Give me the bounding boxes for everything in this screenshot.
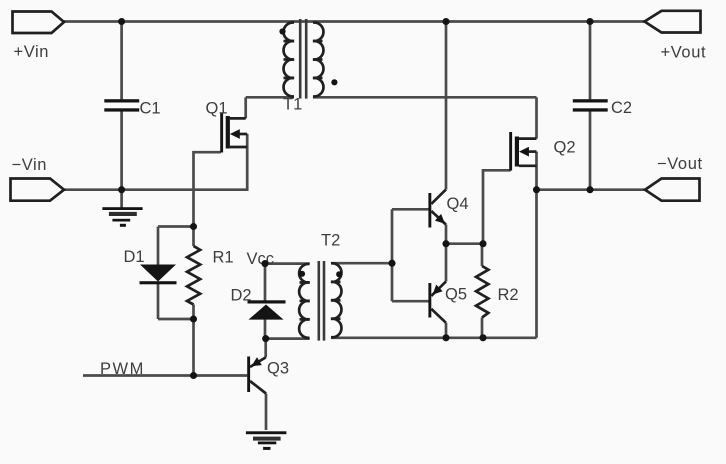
svg-text:+Vout: +Vout bbox=[661, 44, 707, 62]
wire node to T2 primary bottom bbox=[265, 337, 310, 340]
svg-text:PWM: PWM bbox=[100, 360, 145, 378]
junction Vcc node bbox=[261, 260, 268, 267]
wire D1 bottom link bbox=[158, 318, 194, 321]
transformer T2 bbox=[299, 232, 342, 341]
wire D2 cathode lead bbox=[264, 264, 267, 301]
svg-text:−Vout: −Vout bbox=[657, 155, 703, 173]
wire -Vout rail bbox=[537, 188, 646, 191]
svg-text:−Vin: −Vin bbox=[12, 156, 48, 174]
wire T1 secondary bottom to Q2 drain bbox=[313, 96, 537, 99]
transistor Q4 bbox=[428, 189, 468, 227]
wire ground stem left bbox=[120, 190, 123, 208]
svg-text:C1: C1 bbox=[140, 100, 161, 118]
wire Q3 emitter vertical bbox=[265, 394, 268, 431]
capacitor C2 bbox=[573, 99, 632, 117]
wire Q4/Q5 base vertical bbox=[391, 209, 394, 301]
svg-text:Q3: Q3 bbox=[267, 360, 289, 378]
wire C2 bottom lead bbox=[589, 111, 592, 189]
wire T2 secondary top to base node bbox=[331, 262, 392, 265]
svg-text:Q2: Q2 bbox=[554, 139, 576, 157]
wire R1 bottom lead bbox=[192, 305, 195, 320]
svg-text:R2: R2 bbox=[498, 286, 519, 304]
wire Q2 drain vertical bbox=[535, 97, 538, 138]
ground under Q3 bbox=[246, 431, 287, 450]
wire bottom rail T2 secondary to right loop bbox=[331, 336, 537, 339]
svg-text:+Vin: +Vin bbox=[14, 43, 50, 61]
junction R2 top Q2 gate node bbox=[479, 240, 486, 247]
resistor R2 bbox=[476, 266, 488, 318]
wire R2 top lead bbox=[481, 244, 484, 266]
wire Q1 gate link bbox=[194, 152, 221, 226]
junction gate node top bbox=[190, 223, 197, 230]
svg-text:Q1: Q1 bbox=[206, 100, 228, 118]
wire Q5 base bbox=[392, 300, 429, 303]
wire Q1 drain vertical bbox=[244, 97, 247, 118]
svg-text:Vcc: Vcc bbox=[247, 250, 275, 268]
junction -Vout rail Q2 source bbox=[533, 186, 540, 193]
wire right loop vertical bbox=[535, 190, 538, 338]
wire R1 node down to PWM node bbox=[192, 319, 195, 376]
wire R2 bottom lead bbox=[481, 318, 484, 338]
junction top rail C2 bbox=[586, 18, 593, 25]
svg-text:C2: C2 bbox=[611, 99, 632, 117]
wire Q2 source vertical bbox=[535, 152, 538, 190]
svg-text:T1: T1 bbox=[283, 96, 302, 114]
junction -Vin rail C1 bbox=[118, 186, 125, 193]
svg-text:Q4: Q4 bbox=[447, 195, 469, 213]
wire Q4 emitter to node to Q5 emitter bbox=[445, 225, 448, 282]
diode D1 bbox=[124, 248, 177, 284]
junction -Vout rail C2 bbox=[586, 186, 593, 193]
svg-text:D1: D1 bbox=[124, 248, 145, 266]
wire Vcc node to T2 primary top bbox=[265, 262, 310, 265]
junction top rail C1 bbox=[118, 18, 125, 25]
wire -Vin rail bbox=[64, 188, 249, 191]
wire emitter node to R2 top bbox=[446, 242, 483, 245]
diode D2 bbox=[231, 287, 286, 320]
wire Q4 collector vertical bbox=[445, 22, 448, 190]
wire Q1 source vertical bbox=[246, 134, 249, 190]
wire D1 top link bbox=[158, 225, 194, 228]
wire C1 bottom lead bbox=[120, 111, 123, 189]
wire D2 anode lead bbox=[264, 320, 267, 339]
wire Q3 collector vertical bbox=[264, 339, 267, 358]
junction bottom rail Q5 collector bbox=[442, 334, 449, 341]
wire Q5 collector vertical bbox=[445, 323, 448, 338]
transformer T1 bbox=[279, 19, 337, 114]
junction T2 secondary base node bbox=[388, 260, 395, 267]
wire top rail +Vin to +Vout bbox=[64, 20, 644, 23]
wire Q2 gate link bbox=[483, 170, 511, 243]
wire R1 top lead bbox=[192, 227, 195, 247]
wire Q4 base bbox=[392, 208, 429, 211]
junction Q4 Q5 emitter node bbox=[442, 240, 449, 247]
wire C1 top lead bbox=[120, 22, 123, 100]
port -Vout bbox=[645, 155, 703, 201]
port +Vout bbox=[645, 11, 707, 62]
junction D2 Q3 collector node bbox=[262, 335, 269, 342]
svg-text:T2: T2 bbox=[321, 232, 340, 250]
junction PWM node bbox=[190, 372, 197, 379]
junction bottom rail R2 bbox=[479, 334, 486, 341]
mosfet Q1 bbox=[206, 100, 248, 153]
wire C2 top lead bbox=[589, 22, 592, 100]
port +Vin bbox=[13, 12, 65, 62]
svg-text:R1: R1 bbox=[213, 249, 234, 267]
junction top rail Q4 collector bbox=[442, 18, 449, 25]
port -Vin bbox=[11, 156, 65, 201]
wire PWM input bbox=[83, 374, 247, 377]
ground under C1 bbox=[102, 207, 142, 227]
transistor Q3 bbox=[247, 357, 289, 394]
svg-text:Q5: Q5 bbox=[445, 286, 467, 304]
wire T1 primary bottom to Q1 drain bbox=[246, 96, 294, 99]
resistor R1 bbox=[187, 246, 200, 305]
capacitor C1 bbox=[104, 99, 160, 117]
transistor Q5 bbox=[428, 281, 467, 322]
svg-text:D2: D2 bbox=[231, 287, 252, 305]
mosfet Q2 bbox=[509, 132, 575, 171]
wire D1 anode lead bbox=[157, 227, 160, 265]
junction D1 R1 bottom bbox=[190, 315, 197, 322]
wire D1 cathode lead bbox=[157, 283, 160, 319]
